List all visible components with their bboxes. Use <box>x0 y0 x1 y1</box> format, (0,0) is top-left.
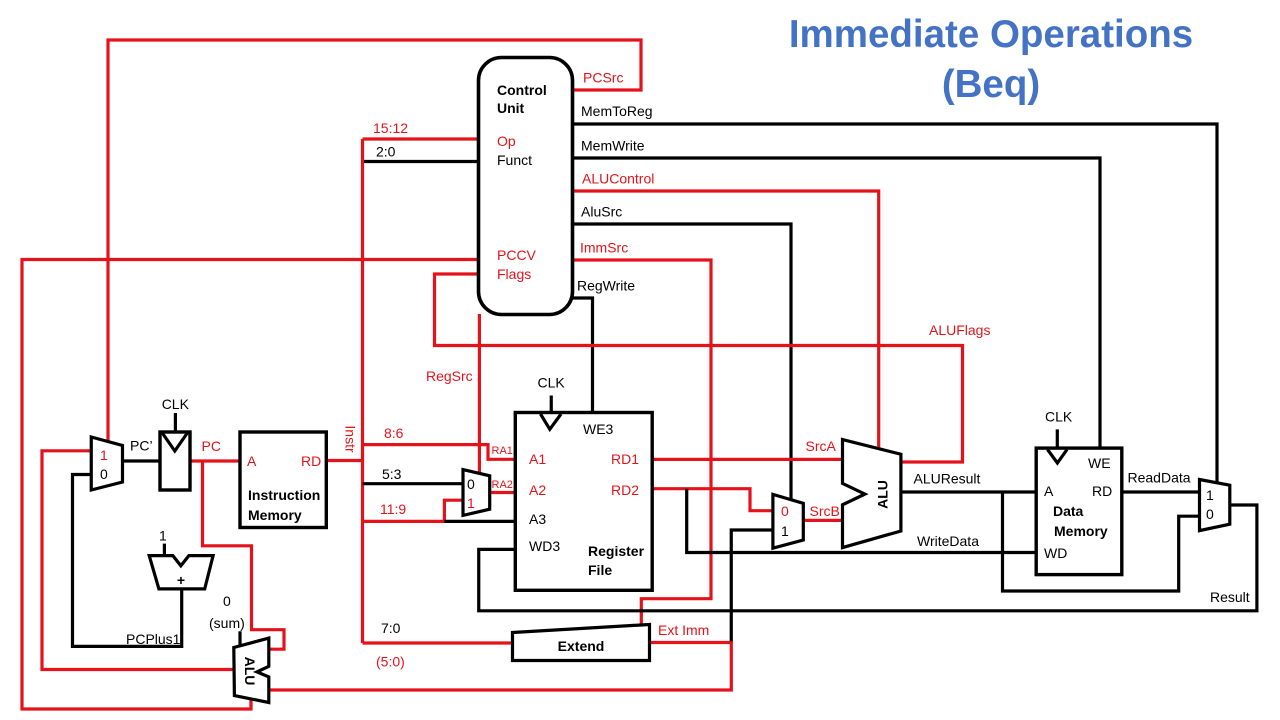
wire ImmSrc: control unit to Extend <box>573 260 712 626</box>
svg-text:WD3: WD3 <box>529 538 560 554</box>
mux result <box>1200 480 1230 531</box>
svg-text:RegWrite: RegWrite <box>577 278 635 294</box>
wire ExtImm riser to SrcB mux 1 <box>731 530 773 641</box>
svg-text:5:3: 5:3 <box>382 466 402 482</box>
wire AluSrc: control unit to SrcB mux select <box>573 224 792 499</box>
svg-text:8:6: 8:6 <box>384 425 404 441</box>
svg-text:11:9: 11:9 <box>380 501 406 517</box>
svg-text:1: 1 <box>159 528 167 544</box>
svg-text:Unit: Unit <box>497 100 525 116</box>
label 0 (sum) <box>209 593 245 631</box>
wire SrcA: RD1 to ALU <box>652 458 842 461</box>
svg-text:ImmSrc: ImmSrc <box>580 240 628 256</box>
svg-text:Flags: Flags <box>497 266 531 282</box>
svg-text:1: 1 <box>781 523 789 539</box>
svg-text:A: A <box>1044 483 1054 499</box>
mux PC <box>91 437 122 490</box>
wire A3 <box>444 520 515 523</box>
svg-text:0: 0 <box>781 503 789 519</box>
wire MemToReg: control unit to result mux select <box>573 124 1218 482</box>
svg-text:SrcB: SrcB <box>810 503 840 519</box>
svg-text:0: 0 <box>100 466 108 482</box>
svg-text:A2: A2 <box>529 482 546 498</box>
svg-text:Instr: Instr <box>343 425 359 453</box>
svg-text:ALUControl: ALUControl <box>582 171 654 187</box>
wire PC branch to branch ALU <box>203 461 285 649</box>
svg-text:A3: A3 <box>529 511 546 527</box>
svg-text:Register: Register <box>588 543 645 559</box>
wire constant 1 stub <box>163 544 166 556</box>
svg-text:7:0: 7:0 <box>381 620 401 636</box>
wire ALUFlags loop: ALU to control unit Flags <box>435 274 963 462</box>
svg-text:Memory: Memory <box>1054 523 1108 539</box>
wire RD2 to SrcB mux 0 <box>652 489 773 511</box>
svg-text:PC: PC <box>202 438 221 454</box>
svg-text:15:12: 15:12 <box>373 120 408 136</box>
svg-text:RD1: RD1 <box>611 451 639 467</box>
svg-text:Instruction: Instruction <box>248 487 320 503</box>
svg-text:1: 1 <box>100 447 108 463</box>
svg-text:(5:0): (5:0) <box>376 654 405 670</box>
svg-text:RD2: RD2 <box>611 482 639 498</box>
wire PCSrc: control unit to PC mux select <box>108 40 641 441</box>
register file <box>515 374 652 590</box>
svg-text:Data: Data <box>1053 503 1084 519</box>
svg-text:RD: RD <box>1092 483 1112 499</box>
svg-text:PC’: PC’ <box>130 438 153 454</box>
svg-text:Immediate Operations: Immediate Operations <box>789 13 1193 56</box>
wire RegWrite: control unit to register file WE3 <box>573 298 593 413</box>
wire Result loop to WD3 <box>479 505 1257 611</box>
svg-text:RD: RD <box>301 453 321 469</box>
svg-text:CLK: CLK <box>1045 409 1073 425</box>
svg-text:RA1: RA1 <box>492 445 513 457</box>
svg-text:Extend: Extend <box>558 638 605 654</box>
svg-text:AluSrc: AluSrc <box>581 204 622 220</box>
svg-text:(sum): (sum) <box>209 615 245 631</box>
svg-text:ALU: ALU <box>874 480 890 509</box>
svg-text:+: + <box>177 572 185 588</box>
svg-text:PCPlus1: PCPlus1 <box>126 631 181 647</box>
svg-text:Funct: Funct <box>497 152 532 168</box>
svg-text:0: 0 <box>1206 506 1214 522</box>
wire ReadData <box>1122 490 1200 493</box>
mux RegSrc A2 <box>463 470 490 516</box>
wire PC to instruction memory <box>190 459 240 462</box>
svg-text:RegSrc: RegSrc <box>426 368 473 384</box>
mux SrcB <box>773 494 803 548</box>
wire 7:0 to Extend <box>363 641 513 644</box>
wire SrcB: mux to ALU <box>803 519 842 522</box>
wire RA2: mux to A2 <box>490 491 516 494</box>
wire Funct 2:0 <box>363 160 479 163</box>
svg-text:Memory: Memory <box>248 507 302 523</box>
svg-text:RA2: RA2 <box>492 479 513 491</box>
svg-text:0: 0 <box>223 593 231 609</box>
wire ALUResult loop to result mux 0 <box>1003 492 1200 591</box>
svg-text:A: A <box>247 453 257 469</box>
svg-text:1: 1 <box>467 495 475 511</box>
wire RegSrc: control unit to A2 mux select <box>478 314 481 474</box>
svg-text:MemToReg: MemToReg <box>581 103 653 119</box>
svg-text:SrcA: SrcA <box>806 438 837 454</box>
wire flags loop: branch ALU to control unit PCCV <box>22 260 479 710</box>
svg-text:ALUFlags: ALUFlags <box>929 322 990 338</box>
svg-text:ALUResult: ALUResult <box>914 471 981 487</box>
svg-text:WriteData: WriteData <box>917 533 979 549</box>
svg-text:WE: WE <box>1088 455 1111 471</box>
wire Ext Imm loop: Extend to branch ALU <box>269 643 731 691</box>
branch ALU <box>234 638 269 702</box>
svg-text:Control: Control <box>497 82 547 98</box>
svg-text:1: 1 <box>1206 487 1214 503</box>
wire branch ALU output to PC mux 1 <box>42 451 234 670</box>
control unit U1 <box>479 58 573 315</box>
svg-text:2:0: 2:0 <box>376 144 396 160</box>
title <box>789 13 1193 106</box>
svg-text:WD: WD <box>1044 545 1067 561</box>
svg-text:CLK: CLK <box>162 396 190 412</box>
wire 5:3 to A2 mux 0 <box>363 482 464 485</box>
wire sum stub <box>238 631 241 646</box>
svg-text:ALU: ALU <box>242 657 258 686</box>
register PC <box>160 396 190 490</box>
instruction memory <box>240 432 326 528</box>
wire Op 15:12 <box>363 137 479 140</box>
svg-text:WE3: WE3 <box>583 421 614 437</box>
wire Instr vertical <box>361 139 364 643</box>
wire PC' <box>123 459 161 462</box>
extend unit <box>513 625 650 661</box>
wire ALUControl: control unit to ALU top <box>573 191 879 448</box>
wire ALUResult <box>901 490 1036 493</box>
svg-text:Result: Result <box>1210 589 1250 605</box>
svg-text:ReadData: ReadData <box>1128 470 1191 486</box>
svg-text:A1: A1 <box>529 451 546 467</box>
svg-text:Op: Op <box>497 133 516 149</box>
wire 11:9 to A2 mux 1 <box>363 500 464 521</box>
wire RD to Instr <box>326 459 362 462</box>
svg-text:(Beq): (Beq) <box>942 63 1040 106</box>
wire MemWrite: control unit to data memory WE <box>573 158 1101 448</box>
data memory <box>1036 409 1122 575</box>
svg-text:File: File <box>588 562 612 578</box>
svg-text:MemWrite: MemWrite <box>581 138 645 154</box>
wire 8:6 to RA1 <box>363 445 516 460</box>
svg-text:Ext Imm: Ext Imm <box>658 622 709 638</box>
adder PCPlus1 <box>149 556 213 589</box>
wire WriteData <box>687 489 1036 553</box>
svg-text:PCSrc: PCSrc <box>583 70 623 86</box>
svg-text:CLK: CLK <box>538 374 566 390</box>
wire PCPlus1 loop <box>73 475 182 647</box>
main ALU <box>843 440 901 548</box>
svg-text:0: 0 <box>467 476 475 492</box>
svg-text:PCCV: PCCV <box>497 247 537 263</box>
